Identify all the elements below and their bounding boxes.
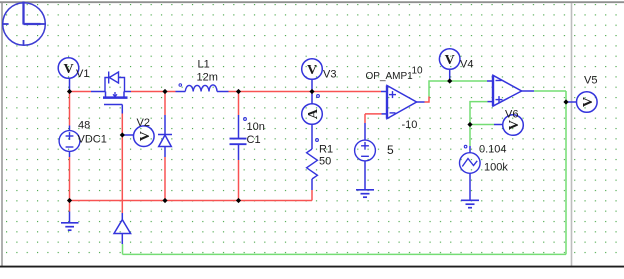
clock icon (3, 2, 46, 46)
wire 5V source leads (364, 123, 366, 141)
wire mosfet source lead (124, 91, 131, 93)
node V3-R1 (309, 89, 314, 94)
svg-text:V5: V5 (584, 75, 597, 87)
wire V5 stub (568, 101, 577, 103)
svg-text:V: V (507, 120, 522, 130)
transistor MOSFET body diode (105, 72, 125, 92)
node V5 (563, 99, 568, 104)
wire V6 stub (494, 124, 503, 126)
probe V2 (134, 126, 155, 147)
svg-text:V4: V4 (460, 59, 473, 71)
svg-text:V: V (138, 131, 153, 141)
wire opamp output to comparator minus (429, 81, 487, 97)
svg-text:V: V (307, 63, 317, 78)
wire V3 stem (311, 80, 313, 90)
svg-text:L1: L1 (198, 59, 210, 71)
wire ammeter stems (311, 92, 313, 105)
probe V1 (58, 58, 79, 79)
wire VDC1 bottom leg (69, 157, 71, 201)
wire comparator output (534, 90, 566, 92)
node ground rail (67, 198, 72, 203)
wire V1 stem (69, 78, 71, 90)
transistor MOSFET body (103, 92, 128, 105)
svg-text:12m: 12m (197, 72, 218, 84)
resistor R1 (307, 139, 319, 179)
wire opamp minus input (365, 113, 382, 115)
page edge line right (571, 3, 573, 266)
node diode top (162, 89, 167, 94)
wire VDC1 leads (69, 126, 71, 132)
ground G2 (356, 190, 374, 197)
probe V3 (302, 59, 323, 80)
wire C1 top leg (238, 92, 240, 116)
wire diode top leg (164, 92, 166, 116)
wire opamp input stubs (381, 91, 387, 93)
svg-text:OP_AMP1: OP_AMP1 (366, 71, 414, 82)
source VTRI (460, 145, 481, 173)
wire gate drive vertical (121, 114, 123, 214)
wire opamp output corner (425, 97, 430, 103)
node C1 bottom (236, 198, 241, 203)
svg-text:48: 48 (78, 120, 90, 132)
inductor L1 (179, 84, 217, 92)
wire C1 bottom leg (238, 160, 240, 201)
wire mosfet drain lead (91, 91, 106, 93)
wire L1 to opamp plus input (229, 91, 382, 93)
wire ground1 stem (69, 212, 71, 223)
svg-text:10: 10 (412, 66, 424, 77)
wire tri source leads (469, 146, 471, 153)
svg-text:V3: V3 (323, 69, 336, 81)
driver triangle (114, 220, 131, 234)
wire feedback to driver (122, 244, 124, 254)
wire comparator plus branch (470, 102, 488, 146)
wire driver stubs (121, 213, 123, 220)
svg-text:5: 5 (387, 143, 394, 157)
node V4 (447, 78, 452, 83)
node rail-V1-VDC1 (67, 89, 72, 94)
wire V4 stem (449, 70, 451, 80)
wire feedback bottom horizontal (123, 253, 567, 255)
ground G3 (461, 200, 479, 207)
source VDC 5 (355, 140, 376, 161)
probe V6 (503, 115, 524, 136)
node diode bottom (162, 198, 167, 203)
svg-text:100k: 100k (484, 162, 508, 174)
svg-text:V: V (581, 97, 596, 107)
wire V6 stub branch (470, 124, 494, 126)
wire gate lead vertical (121, 105, 123, 114)
svg-text:A: A (306, 108, 321, 119)
svg-text:V1: V1 (76, 68, 89, 80)
wire ground stub (69, 201, 71, 212)
svg-text:50: 50 (319, 156, 331, 168)
wire L1 leads (176, 91, 186, 93)
svg-text:-10: -10 (402, 119, 418, 131)
source VDC1 (59, 131, 80, 152)
ground G1 (61, 223, 79, 230)
probe V4 (439, 49, 460, 70)
node V6 (467, 122, 472, 127)
svg-text:V6: V6 (505, 109, 518, 121)
wire mosfet to diode node to L1 (131, 91, 176, 93)
svg-text:V: V (445, 53, 455, 68)
wire V2 stub (122, 134, 133, 136)
svg-text:C1: C1 (247, 134, 261, 146)
node V2 gate (120, 132, 125, 137)
wire R1 bottom lead (311, 179, 313, 190)
window border bottom (0, 266, 624, 268)
svg-text:R1: R1 (319, 144, 333, 156)
wire 5V source top leg (364, 114, 366, 123)
wire C1 leads (238, 115, 240, 138)
svg-text:10n: 10n (247, 121, 265, 133)
wire top rail left (70, 91, 92, 93)
wire R1 bottom leg (311, 190, 313, 201)
wire diode leads (164, 115, 166, 135)
comparator U2 (493, 75, 522, 106)
probe V5 (577, 92, 598, 113)
diode D1 (158, 135, 172, 147)
svg-text:V: V (63, 62, 73, 77)
node C1 top (236, 89, 241, 94)
window border left (1, 2, 3, 267)
wire opamp output stub (417, 101, 425, 103)
capacitor C1 (230, 118, 247, 145)
svg-text:0.104: 0.104 (479, 144, 507, 156)
wire VDC1 top leg (69, 92, 71, 126)
op-amp U1 (387, 86, 417, 119)
wire bottom rail (70, 200, 313, 202)
window border top (0, 1, 624, 3)
svg-text:V2: V2 (137, 117, 150, 129)
svg-text:VDC1: VDC1 (78, 134, 107, 146)
ammeter A1 (302, 95, 323, 125)
wire comparator stubs (487, 80, 493, 82)
wire feedback right vertical (565, 91, 567, 254)
wire diode bottom leg (164, 157, 166, 201)
